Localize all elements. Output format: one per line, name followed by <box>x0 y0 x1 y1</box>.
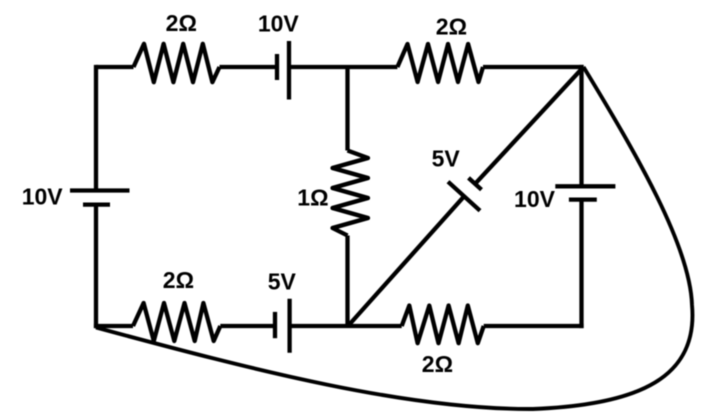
wire bottom-left horizontal segment <box>94 324 133 328</box>
battery V1 10V top: short bar (left) <box>275 54 279 80</box>
wire big outer curve (bottom-left corner to top-right corner) <box>96 67 692 409</box>
battery V2 10V left: short bar (bottom) <box>83 202 110 206</box>
svg-text:1Ω: 1Ω <box>297 184 328 210</box>
resistor R4 2ohm bottom-right zigzag <box>402 306 484 344</box>
battery V3 5V bottom: short bar (left) <box>273 312 277 338</box>
wire center vertical lower (resistor R5 to bottom node) <box>345 236 349 327</box>
svg-text:2Ω: 2Ω <box>166 10 197 36</box>
battery V5 5V diagonal: short bar (upper-right) <box>469 178 482 190</box>
wire diagonal upper (battery V5 short bar to top-right corner) <box>475 67 583 184</box>
resistor R5 1ohm middle vertical zigzag <box>333 151 369 236</box>
wire top-left horizontal segment <box>96 65 134 69</box>
wire center vertical upper (top wire to resistor R5) <box>345 67 349 151</box>
battery V3 5V bottom: long bar (right) <box>287 299 291 353</box>
wire R4 to bottom-right corner <box>484 324 584 328</box>
svg-text:5V: 5V <box>432 145 461 171</box>
resistor R2 2ohm top-right zigzag <box>397 44 483 82</box>
resistor R3 2ohm bottom-left zigzag <box>133 303 220 341</box>
battery V4 10V right: short bar (bottom) <box>569 197 597 201</box>
wire battery V3 to resistor R4 through center node <box>290 324 402 328</box>
svg-text:2Ω: 2Ω <box>163 267 194 293</box>
wire between R3 and battery V3 <box>220 324 275 328</box>
battery V5 5V diagonal: long bar (lower-left) <box>448 182 480 211</box>
svg-text:2Ω: 2Ω <box>436 14 467 40</box>
wire between battery V1 and resistor R2 <box>289 65 397 69</box>
wire diagonal lower (bottom node to battery V5 long bar) <box>348 196 464 326</box>
svg-text:2Ω: 2Ω <box>422 351 453 377</box>
wire right vertical upper (top-right corner to battery V4) <box>579 65 583 186</box>
svg-text:10V: 10V <box>258 11 300 37</box>
wire R2 to top-right corner node <box>483 65 584 69</box>
svg-text:10V: 10V <box>22 183 64 209</box>
svg-text:10V: 10V <box>514 186 556 212</box>
wire right vertical lower (battery V4 to bottom-right corner) <box>579 200 583 329</box>
wire left vertical upper (corner to battery V2) <box>94 65 98 191</box>
wire between R1 and battery V1 <box>220 65 278 69</box>
battery V4 10V right: long bar (top) <box>555 184 615 188</box>
svg-text:5V: 5V <box>268 268 297 294</box>
wire left vertical lower (battery V2 to bottom-left corner) <box>94 205 98 329</box>
battery V1 10V top: long bar (right) <box>287 41 291 100</box>
battery V2 10V left: long bar (top) <box>70 188 130 192</box>
resistor R1 2ohm top-left zigzag <box>134 44 220 82</box>
